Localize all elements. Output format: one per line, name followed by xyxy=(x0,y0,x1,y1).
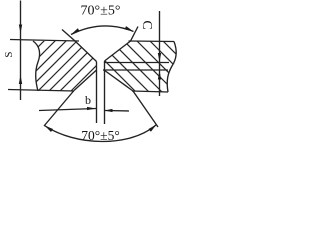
svg-text:S: S xyxy=(3,51,15,57)
S top arrow xyxy=(19,25,22,34)
dimension C shaft xyxy=(159,11,161,96)
svg-text:70°±5°: 70°±5° xyxy=(81,128,119,143)
dimension b left line xyxy=(39,109,96,111)
left plate top surface with extension xyxy=(10,40,79,42)
right plate top bevel with extension above xyxy=(105,27,139,62)
right bottom bevel extension below xyxy=(133,91,158,127)
left plate hatching xyxy=(0,30,132,100)
left plate bottom bevel xyxy=(74,70,97,91)
dimension S shaft xyxy=(20,1,22,101)
b right arrow xyxy=(105,109,113,112)
right root face and extension down xyxy=(104,61,106,124)
S bottom arrow xyxy=(19,75,22,84)
left plate top bevel with extension above xyxy=(62,30,97,62)
left bottom bevel extension below xyxy=(44,91,74,127)
bottom arc right arrowhead xyxy=(149,125,157,132)
C down arrow xyxy=(158,53,161,62)
svg-text:C: C xyxy=(139,20,154,29)
left plate bottom surface with extension xyxy=(8,90,74,92)
top arc left arrowhead xyxy=(71,28,80,34)
dimension b right line xyxy=(105,110,130,113)
dimension C upper extension line xyxy=(104,62,169,64)
right plate bottom bevel xyxy=(104,70,133,91)
right plate top surface xyxy=(129,40,175,43)
dimension C lower extension line xyxy=(103,69,168,71)
C up arrow xyxy=(158,71,161,80)
left root extension down xyxy=(96,70,98,123)
svg-text:b: b xyxy=(85,93,91,107)
b left arrow xyxy=(87,107,96,110)
top arc right arrowhead xyxy=(125,26,134,31)
left plate break line xyxy=(33,41,40,91)
right plate break line xyxy=(167,42,176,93)
right plate bottom surface xyxy=(132,91,168,92)
bottom arc left arrowhead xyxy=(45,126,54,133)
right plate hatching xyxy=(74,30,222,100)
bottom angle arc xyxy=(45,125,157,142)
svg-text:70°±5°: 70°±5° xyxy=(81,4,121,19)
top angle arc xyxy=(71,26,134,35)
left root face xyxy=(96,62,98,71)
